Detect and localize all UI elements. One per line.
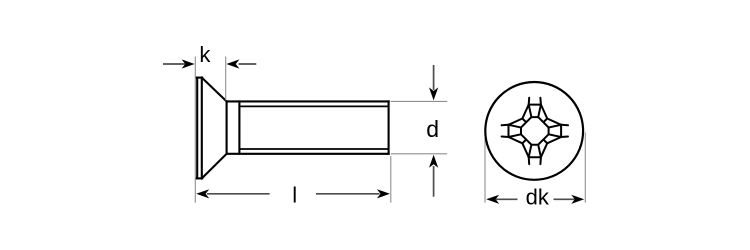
- thread root bottom line: [239, 148, 388, 150]
- thread root top line: [239, 105, 388, 107]
- dk right extension line: [584, 133, 586, 203]
- k right dim shaft: [239, 63, 257, 65]
- dk right dim shaft: [554, 198, 575, 200]
- d bottom arrow: [429, 155, 438, 168]
- recess quadrant bottom: [509, 134, 541, 164]
- svg-text:d: d: [426, 116, 439, 142]
- l left arrow: [196, 189, 209, 198]
- cone top diagonal: [202, 78, 227, 102]
- head outer face line: [196, 78, 198, 179]
- shank bottom outer line: [227, 153, 389, 155]
- d bottom dim shaft: [433, 166, 435, 197]
- dk left dim shaft: [496, 198, 518, 200]
- svg-text:l: l: [292, 182, 297, 207]
- recess quadrant top: [529, 98, 561, 128]
- head shank junction: [226, 101, 228, 153]
- cone bottom diagonal: [202, 154, 227, 179]
- screw end face: [388, 101, 390, 153]
- d top arrow: [429, 87, 438, 100]
- recess quadrant left: [502, 105, 532, 137]
- l right dim shaft: [316, 193, 380, 195]
- d bottom extension line: [391, 153, 447, 155]
- l right arrow: [377, 189, 390, 198]
- k left dim shaft: [163, 63, 185, 65]
- l right extension line: [390, 156, 392, 203]
- l left dim shaft: [207, 193, 270, 195]
- k right arrow: [226, 59, 239, 68]
- dk left arrow: [486, 195, 499, 204]
- k left arrow: [182, 59, 195, 68]
- head inner face line: [201, 78, 203, 179]
- svg-text:k: k: [199, 42, 211, 67]
- d top extension line: [391, 100, 447, 102]
- dk left extension line: [484, 133, 486, 203]
- left extension line (k and l): [194, 57, 196, 203]
- d top dim shaft: [433, 65, 435, 90]
- shank top outer line: [227, 100, 389, 102]
- recess quadrant right: [538, 125, 568, 157]
- thread runout line: [238, 101, 240, 153]
- dk right arrow: [571, 195, 584, 204]
- head top cap: [196, 77, 202, 79]
- head circle dk: [485, 82, 583, 180]
- svg-text:dk: dk: [526, 184, 550, 209]
- k right extension line: [225, 57, 227, 101]
- head bottom cap: [196, 177, 202, 179]
